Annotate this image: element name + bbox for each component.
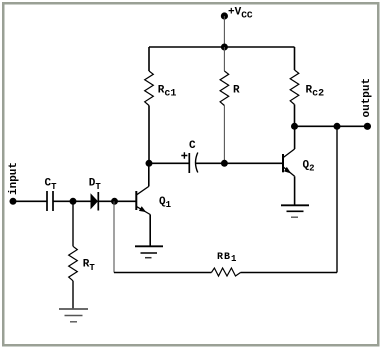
wire output line xyxy=(295,125,368,127)
input terminal xyxy=(8,162,20,205)
wire feedback up xyxy=(336,126,338,272)
svg-text:C: C xyxy=(189,140,196,152)
ground Q2 xyxy=(281,205,309,217)
svg-text:R: R xyxy=(233,85,240,97)
svg-text:RB1: RB1 xyxy=(217,252,237,264)
svg-text:input: input xyxy=(8,162,20,195)
wire feedback bottom right xyxy=(241,272,338,274)
wire input to CT xyxy=(13,200,47,202)
node Rc2 output junction xyxy=(291,123,298,130)
ground Q1 xyxy=(135,246,163,257)
svg-text:output: output xyxy=(361,78,373,118)
resistor Rc2 xyxy=(290,47,324,126)
node feedback junction xyxy=(334,123,341,130)
wire mid line right xyxy=(195,162,283,164)
resistor Rc1 xyxy=(145,47,177,163)
capacitor CT xyxy=(45,177,58,211)
node Vcc rail junction xyxy=(221,44,228,51)
output terminal xyxy=(361,78,373,130)
wire node to diode xyxy=(73,200,91,202)
node Rc1 / C junction xyxy=(146,160,153,167)
transistor Q2 xyxy=(283,126,315,205)
node RT junction xyxy=(70,198,77,205)
resistor R xyxy=(220,47,240,163)
node R / C junction xyxy=(221,160,228,167)
transistor Q1 xyxy=(115,163,172,246)
wire feedback down xyxy=(113,201,115,272)
+Vcc terminal xyxy=(221,7,253,21)
ground RT xyxy=(59,309,88,322)
capacitor C xyxy=(181,140,198,173)
diode DT xyxy=(89,177,102,210)
wire Vcc stub xyxy=(223,16,225,47)
resistor RB1 xyxy=(211,252,240,276)
wire mid line left xyxy=(149,162,189,164)
node Q1 base junction xyxy=(111,198,118,205)
resistor RT xyxy=(69,201,96,308)
wire diode to base node xyxy=(98,200,114,202)
wire feedback bottom left xyxy=(114,272,211,274)
wire CT to RT node xyxy=(53,200,73,202)
svg-text:+VCC: +VCC xyxy=(228,7,253,21)
wire top rail xyxy=(149,46,295,48)
